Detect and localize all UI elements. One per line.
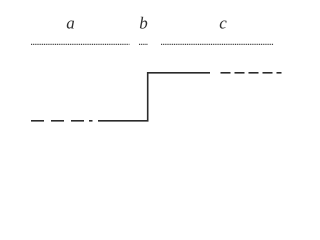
- dotted rule under b: [139, 43, 148, 45]
- lower solid line + step + upper solid line: [98, 73, 210, 121]
- label c: [220, 20, 227, 28]
- dotted rule under a: [31, 43, 130, 45]
- lower dashed line: [31, 120, 93, 122]
- label a: [67, 20, 74, 28]
- dotted rule under c: [161, 43, 274, 45]
- upper dashed line: [221, 72, 282, 74]
- label b: [140, 17, 147, 29]
